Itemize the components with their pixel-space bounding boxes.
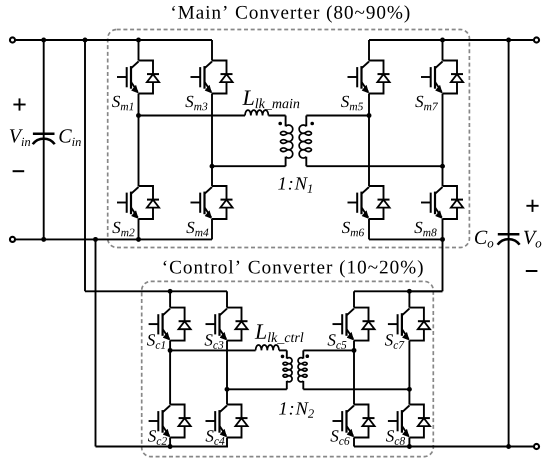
wire: Sm3/Sm4 leg bbox=[211, 40, 213, 239]
title: Main Converter bbox=[172, 5, 409, 22]
node: junction Vin- tap bbox=[93, 237, 98, 242]
wire: main primary top rail b bbox=[268, 115, 285, 117]
label Sc5 bbox=[328, 334, 347, 349]
wire: control primary top rail b bbox=[279, 349, 287, 351]
label Sm4 bbox=[186, 222, 208, 236]
title: Control Converter bbox=[164, 260, 423, 277]
wire: control secondary bottom rail bbox=[354, 446, 533, 448]
wire: control primary top rail bbox=[170, 349, 256, 351]
wire: Sc7/Sc8 leg bbox=[408, 291, 410, 446]
transistor Sc5 bbox=[333, 308, 375, 341]
node: junction Sm8 bottom bbox=[440, 237, 445, 242]
transistor Sc3 bbox=[206, 308, 248, 341]
wire: bottom input rail right section bbox=[369, 238, 443, 240]
label: output minus sign bbox=[526, 270, 538, 272]
label Sm1 bbox=[112, 96, 133, 110]
transistor Sc1 bbox=[149, 308, 191, 341]
wire: Sc3/Sc4 leg bbox=[226, 291, 228, 446]
node: junction output rail bottom bbox=[506, 444, 511, 449]
transistor Sc2 bbox=[149, 405, 191, 438]
wire: control secondary top rail bbox=[354, 290, 443, 292]
transistor Sm6 bbox=[348, 186, 390, 219]
node: junction control secondary top bbox=[352, 348, 357, 353]
transistor Sm2 bbox=[117, 186, 159, 219]
transistor Sc8 bbox=[388, 405, 430, 438]
label: input plus sign bbox=[13, 98, 25, 110]
label: output plus sign bbox=[526, 200, 538, 212]
wire: top rail right section bbox=[369, 39, 533, 41]
wire: Vin+ drop to control bridge bbox=[85, 40, 227, 291]
label: input minus sign bbox=[13, 170, 25, 172]
inductor L_lk_main bbox=[245, 110, 268, 115]
label Sm8 bbox=[414, 222, 436, 237]
transistor Sc4 bbox=[206, 405, 248, 438]
node: junction control primary top bbox=[168, 348, 173, 353]
wire: Cin lead bbox=[43, 40, 45, 239]
wire: series link main to control secondary bbox=[409, 239, 442, 291]
node: junction Sm7 top bbox=[440, 38, 445, 43]
label Sm5 bbox=[341, 96, 363, 111]
transistor Sc7 bbox=[388, 308, 430, 341]
transistor Sm8 bbox=[421, 186, 463, 219]
label Sc2 bbox=[148, 430, 167, 445]
wire: main primary top rail bbox=[139, 115, 246, 117]
wire: output rail bbox=[508, 40, 510, 447]
wire: main primary bottom rail bbox=[212, 165, 286, 167]
node: junction Sm2 bottom bbox=[136, 237, 141, 242]
node: junction Vin+ tap bbox=[83, 38, 88, 43]
transistor Sm3 bbox=[191, 61, 233, 94]
node: T2 primary polarity dot bbox=[281, 355, 285, 359]
label 1:N2 bbox=[279, 402, 314, 417]
wire: Sm7/Sm8 leg bbox=[442, 40, 444, 239]
inductor L_lk_ctrl bbox=[256, 345, 279, 350]
node: junction Sm1 top bbox=[136, 38, 141, 43]
wire: control secondary mid top rail bbox=[303, 349, 354, 351]
label Sm6 bbox=[342, 222, 364, 237]
node: junction Sc1 top bbox=[168, 289, 173, 294]
wire: Sc1/Sc2 leg bbox=[169, 291, 171, 446]
transistor Sc6 bbox=[333, 405, 375, 438]
label Sc1 bbox=[147, 334, 165, 349]
wire: Vin- drop to control bridge bbox=[96, 239, 229, 446]
node: junction main primary top bbox=[136, 113, 141, 118]
label Vin bbox=[10, 129, 30, 146]
node: junction main primary bottom bbox=[210, 164, 215, 169]
transistor Sm4 bbox=[191, 186, 233, 219]
node: output - terminal bbox=[534, 444, 539, 449]
label Sm7 bbox=[415, 96, 438, 110]
label Sc7 bbox=[385, 334, 405, 349]
label Co bbox=[475, 231, 493, 248]
node: output + terminal bbox=[534, 37, 539, 42]
label Sc6 bbox=[330, 430, 349, 445]
label Sc4 bbox=[206, 430, 225, 445]
node: junction main secondary bottom bbox=[440, 164, 445, 169]
node: junction Sc8 bottom bbox=[407, 444, 412, 449]
label L_lk_ctrl bbox=[255, 324, 304, 343]
transformer T2 primary bbox=[283, 350, 292, 389]
node: junction output rail top bbox=[506, 38, 511, 43]
transformer T2 secondary bbox=[298, 350, 307, 389]
wire: Sm1/Sm2 leg bbox=[138, 40, 140, 239]
label Cin bbox=[59, 129, 80, 146]
node: T2 secondary polarity dot bbox=[306, 354, 310, 358]
dashed box: Control converter bbox=[142, 281, 434, 456]
node: T1 secondary polarity dot bbox=[310, 122, 314, 126]
node: junction Cin top bbox=[41, 38, 46, 43]
wire: bottom input rail left section bbox=[16, 238, 212, 240]
wire: main secondary bottom rail bbox=[306, 165, 442, 167]
node: input - terminal bbox=[10, 237, 15, 242]
node: junction main secondary top bbox=[367, 113, 372, 118]
capacitor Co bbox=[498, 234, 520, 245]
node: junction Sc7 top bbox=[407, 289, 412, 294]
label L_lk_main bbox=[242, 90, 299, 109]
node: junction control primary bottom bbox=[225, 387, 230, 392]
transistor Sm5 bbox=[348, 61, 390, 94]
transistor Sm7 bbox=[421, 61, 463, 94]
node: T1 primary polarity dot bbox=[278, 122, 282, 126]
wire: Sm5/Sm6 leg bbox=[368, 40, 370, 239]
wire: Sc5/Sc6 leg bbox=[353, 291, 355, 446]
node: junction Cin bottom bbox=[41, 237, 46, 242]
capacitor Cin bbox=[33, 134, 55, 145]
label Sm2 bbox=[112, 222, 134, 236]
node: input + terminal bbox=[10, 37, 15, 42]
node: junction control secondary bottom bbox=[407, 387, 412, 392]
label Sc3 bbox=[205, 334, 224, 349]
transformer T1 secondary bbox=[299, 116, 311, 167]
wire: top rail left section bbox=[16, 39, 212, 41]
wire: main secondary top rail bbox=[306, 115, 369, 117]
wire: control primary bottom rail bbox=[227, 388, 287, 390]
label 1:N1 bbox=[278, 177, 312, 192]
wire: control secondary mid bottom rail bbox=[303, 388, 409, 390]
dashed box: Main converter bbox=[108, 30, 470, 248]
label Sm3 bbox=[185, 96, 207, 111]
label Vo bbox=[524, 231, 541, 248]
node: junction Sc2 bottom bbox=[168, 444, 173, 449]
transformer T1 primary bbox=[280, 116, 292, 167]
transistor Sm1 bbox=[117, 61, 159, 94]
label Sc8 bbox=[386, 430, 405, 445]
